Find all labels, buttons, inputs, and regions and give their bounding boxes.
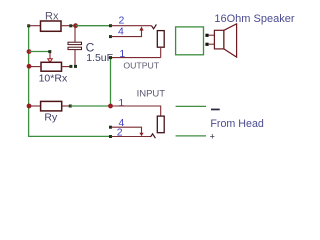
wire Rx right lead (61, 25, 75, 27)
wire INPUT pin4 lead (111, 127, 142, 133)
node OUTPUT pin2 (109, 24, 112, 27)
node junction wiper (rail) (27, 49, 32, 54)
connector OUTPUT switch arrow (139, 26, 143, 30)
node rail top pin (27, 24, 30, 27)
node Ry right pin (69, 105, 72, 108)
speaker LS1 driver (214, 30, 224, 49)
wire OUTPUT sleeve stub (160, 47, 162, 57)
node INPUT pin4 (109, 126, 112, 129)
svg-text:Ry: Ry (44, 112, 58, 124)
svg-text:INPUT: INPUT (137, 89, 166, 100)
svg-text:From Head: From Head (210, 118, 264, 130)
capacitor C top plate (68, 42, 82, 44)
potentiometer 10*Rx wiper arrow (49, 53, 51, 59)
node pot right pin (69, 65, 72, 68)
wire from-head plus stub (176, 135, 206, 137)
capacitor C top lead (74, 26, 76, 43)
wire junction to OUTPUT pin2 (76, 25, 111, 27)
node cap bottom pin (74, 65, 77, 68)
wire Rx left lead (29, 25, 41, 27)
wire Ry left lead (29, 105, 41, 107)
connector INPUT body (157, 116, 164, 133)
wire from-head minus stub (176, 105, 206, 107)
speaker enclosure box (176, 27, 204, 55)
potentiometer 10*Rx body (41, 62, 62, 71)
svg-text:OUTPUT: OUTPUT (123, 60, 159, 70)
wire speaker top lead (209, 34, 215, 36)
wire speaker bottom lead (209, 43, 215, 45)
speaker LS1 cone (224, 24, 237, 57)
node OUTPUT pin1 (109, 56, 112, 59)
wire Ry right lead (62, 105, 71, 107)
svg-text:16Ohm Speaker: 16Ohm Speaker (214, 13, 294, 25)
connector INPUT tip contact mark (151, 134, 156, 138)
wire OUTPUT pin2 lead (111, 25, 152, 27)
node junction pot left (rail) (27, 64, 32, 69)
wire OUTPUT pin1 lead (111, 57, 161, 59)
capacitor C bottom lead (74, 50, 76, 67)
node junction input pin1 (108, 104, 113, 109)
node junction cap top (73, 23, 78, 28)
wire vertical output pin1 to input pin1 (110, 59, 112, 107)
connector OUTPUT body (157, 31, 164, 48)
label minus (211, 109, 220, 111)
node wiper pin (48, 50, 51, 53)
connector OUTPUT tip contact mark (152, 24, 157, 28)
node Rx right pin (69, 24, 72, 27)
wire wiper (29, 51, 50, 53)
svg-text:1: 1 (118, 97, 124, 109)
resistor Rx body (41, 21, 62, 31)
speaker pin bottom (205, 43, 208, 46)
node junction Ry left (rail) (27, 104, 32, 109)
node OUTPUT pin4 (109, 35, 112, 38)
svg-text:10*Rx: 10*Rx (39, 72, 68, 84)
svg-text:4: 4 (118, 26, 124, 38)
wire OUTPUT pin4 lead (111, 30, 142, 36)
svg-text:+: + (210, 132, 215, 141)
capacitor C bottom plate (68, 47, 82, 49)
wire pot left lead (29, 66, 41, 68)
wire pot right lead (62, 66, 72, 68)
wire Ry to input junction (70, 105, 110, 107)
wire INPUT pin1 lead (112, 106, 161, 116)
connector INPUT switch arrow (139, 133, 143, 137)
node INPUT pin2 (109, 135, 112, 138)
wire left rail vertical (29, 26, 111, 137)
resistor Ry body (41, 101, 62, 111)
wire INPUT pin2 lead (111, 136, 151, 138)
svg-text:1: 1 (119, 48, 125, 60)
speaker pin top (205, 34, 208, 37)
